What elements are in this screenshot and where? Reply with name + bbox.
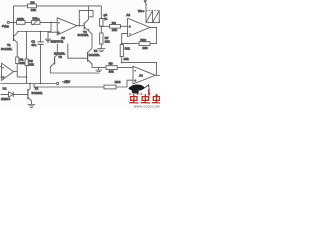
node A4 feedback [121,62,123,64]
resistor R7 [100,6,109,26]
waveform peak dashed level [146,10,160,12]
svg-text:-: - [129,32,130,36]
svg-text:-: - [135,68,136,72]
node T4 base loop [79,25,81,27]
svg-text:+: + [58,31,60,35]
svg-text:10k: 10k [29,63,34,67]
wire node to integrator rail [50,22,52,31]
terminal +Vcc [2,21,17,28]
node C1 tap [40,31,42,33]
wire A4 output [156,74,161,76]
wire A2 output [77,25,84,27]
svg-text:R13: R13 [115,80,121,84]
svg-text:T3: T3 [58,55,62,59]
node R7 bottom [101,26,103,28]
resistor R3 [28,1,37,12]
svg-text:R11: R11 [125,46,131,50]
wire T5 base [68,44,88,59]
svg-text:BC128L: BC128L [1,47,12,51]
wire R4 row to A2 inverting input [40,21,57,23]
node R2 output tie [26,76,28,78]
wire A2 noninverting to ground [48,32,57,39]
svg-text:56k: 56k [33,17,38,21]
wire left bus [13,6,15,34]
sawtooth waveform [146,11,160,23]
op-amp A3 [126,13,150,36]
svg-text:10k: 10k [105,39,110,43]
resistor R12 [122,38,157,50]
svg-text:+: + [134,79,136,83]
node C1 bottom tie [40,83,42,85]
logo red characters [129,94,160,103]
svg-text:+: + [2,76,4,80]
logo tassel red [149,89,158,96]
wire A1 output [14,71,18,73]
resistor R1 [16,43,25,77]
resistor R4 100k [17,17,26,24]
svg-text:V: V [144,0,146,4]
wire T4 base-collector loop [79,10,93,25]
node T2 collector [29,83,31,85]
op-amp A1 [0,63,13,80]
wire output to R2 bottom [17,76,26,78]
wire T3 emitter rail [50,72,98,74]
node R2 tap [26,31,28,33]
wire rail B drop [34,84,104,88]
resistor R9 [92,62,133,74]
svg-text:BC213L: BC213L [32,91,43,95]
ground C2 node [95,68,102,74]
svg-text:Wo+: Wo+ [138,9,145,13]
svg-text:WWW.CCDZ.COM: WWW.CCDZ.COM [134,105,160,109]
svg-text:A4: A4 [139,73,143,77]
node R11 top [121,43,123,45]
ground A2 [45,39,51,42]
ground R10 [97,49,105,52]
resistor R10 [100,26,110,48]
wire feedback to A4 output [122,63,157,76]
rail -15V [0,83,56,85]
resistor R11 [120,45,130,63]
resistor R13 [104,80,121,89]
resistor R8 [101,21,127,32]
wire R13 to A4 input [116,80,133,87]
svg-text:10k: 10k [112,28,117,32]
svg-text:-: - [3,66,4,70]
potentiometer 56k [25,17,40,26]
svg-text:R8: R8 [112,21,116,25]
svg-text:10k: 10k [31,8,36,12]
svg-text:D1: D1 [3,87,7,91]
transistor T2 BC213L [28,84,43,105]
svg-text:10k: 10k [20,61,25,65]
svg-text:10k: 10k [109,70,114,74]
transistor T5 [88,34,101,68]
waveform graph axes [144,0,160,23]
svg-text:+: + [129,25,131,29]
op-amp A2 [51,18,78,44]
svg-text:7k: 7k [103,16,108,21]
wire top rail [14,5,102,7]
svg-text:10k: 10k [142,46,147,50]
svg-text:47n: 47n [31,43,36,47]
svg-text:−15V: −15V [63,80,71,84]
svg-text:100k: 100k [17,17,24,21]
svg-text:+Vcc: +Vcc [2,24,10,28]
svg-text:R12: R12 [140,38,146,42]
resistor R2 [25,32,34,84]
svg-text:R9: R9 [109,62,113,66]
terminal -15V [56,80,71,84]
svg-text:SN72741: SN72741 [51,39,64,43]
svg-text:-: - [58,21,59,25]
capacitor C1 [31,32,43,84]
node junction left bus [13,22,15,24]
svg-text:A3: A3 [126,13,130,17]
svg-text:R3: R3 [31,1,35,5]
wire A3 output [150,27,157,43]
svg-text:BC128L: BC128L [78,33,89,37]
node junction A2 input [50,22,52,24]
svg-text:15k: 15k [124,57,129,61]
diode D1 1N914 [0,87,28,101]
wire integrator rail [18,32,52,33]
ground T2 [28,104,36,107]
transistor T4 [78,6,92,37]
wire A3 inverting input [122,34,128,44]
svg-text:BC128L: BC128L [89,53,100,57]
svg-text:1N914: 1N914 [1,97,10,101]
transistor T1 [1,33,18,51]
op-amp A4 [133,66,156,84]
transistor T3 [50,44,65,73]
logo graduation cap [128,85,149,94]
